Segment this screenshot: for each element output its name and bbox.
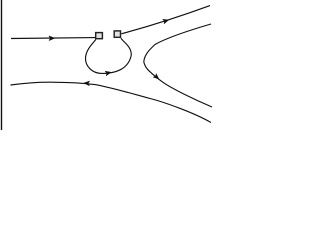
node: right square marker [114, 31, 120, 37]
wire: outgoing diagonal trajectory to top right [121, 6, 210, 34]
wire: hyperbola upper branch (right side) [144, 24, 211, 62]
arrowhead on loop bottom (pointing right, slightly up) [105, 70, 111, 75]
arrowhead on lower-left trajectory (pointing left) [84, 81, 90, 86]
node: left square marker [96, 33, 103, 39]
wire: hyperbola lower branch (right side) [144, 62, 212, 107]
arrowhead on horizontal inflow (pointing right) [49, 36, 54, 40]
left border line [1, 0, 3, 130]
arrowhead on diagonal trajectory (pointing up-right) [163, 18, 169, 24]
wire: loop trajectory below squares [86, 38, 132, 73]
wire: horizontal inflow trajectory [11, 37, 95, 40]
arrowhead on hyperbola lower branch (pointing down-right) [153, 74, 160, 81]
wire: lower-left long trajectory with left arrow [11, 82, 212, 122]
